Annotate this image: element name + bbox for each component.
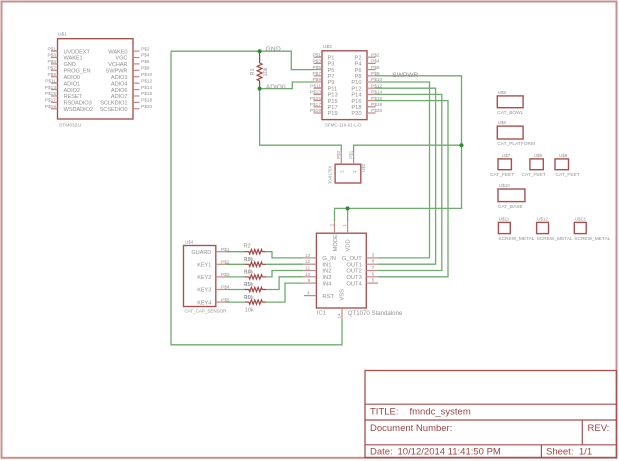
wire U$2 P$1 to SWPWR (354, 145, 462, 152)
svg-text:P$1: P$1 (312, 52, 321, 58)
svg-text:CAT_FEET: CAT_FEET (490, 172, 514, 178)
wire GND net (171, 51, 314, 69)
svg-text:30-8179X: 30-8179X (327, 166, 332, 184)
svg-text:ADIO2: ADIO2 (64, 88, 80, 94)
svg-text:U$13: U$13 (575, 216, 586, 221)
svg-text:P$20: P$20 (141, 104, 153, 110)
svg-text:SCREW_METAL: SCREW_METAL (537, 236, 573, 242)
resistor R3 10k (244, 257, 267, 276)
svg-text:TITLE:: TITLE: (370, 406, 399, 417)
svg-text:GND: GND (266, 46, 282, 53)
svg-text:P5: P5 (328, 68, 335, 74)
svg-text:P$9: P$9 (47, 72, 56, 78)
svg-text:P14: P14 (351, 93, 361, 99)
svg-text:12: 12 (305, 259, 311, 264)
svg-text:U$3: U$3 (323, 44, 332, 50)
svg-text:U$1: U$1 (58, 32, 67, 38)
connector U$2 30-8179X (327, 150, 366, 184)
svg-text:Sheet:: Sheet: (546, 447, 573, 458)
part U$6 CAT_PLATFORM (497, 120, 535, 147)
svg-text:CAT_CAP_SENSOR: CAT_CAP_SENSOR (185, 309, 228, 314)
svg-text:U$2: U$2 (361, 163, 366, 172)
wire sensor row 4 (227, 289, 246, 291)
svg-text:3: 3 (372, 252, 375, 257)
part U$13 SCREW_METAL (574, 216, 610, 241)
svg-text:P$15: P$15 (45, 91, 57, 97)
svg-text:VSS: VSS (340, 289, 346, 301)
svg-text:P13: P13 (328, 93, 338, 99)
svg-text:R3: R3 (244, 257, 251, 263)
svg-text:5: 5 (372, 278, 375, 283)
svg-text:P$5: P$5 (312, 65, 321, 71)
svg-text:U$12: U$12 (537, 216, 548, 221)
svg-text:P8: P8 (355, 74, 362, 80)
wire SWPWR net (335, 76, 462, 222)
wire P$14 to OUT2 (376, 94, 442, 270)
svg-text:ADIO0: ADIO0 (64, 75, 80, 81)
svg-text:G_IN: G_IN (322, 256, 336, 262)
svg-text:P$18: P$18 (141, 98, 153, 104)
svg-text:U$8: U$8 (534, 153, 543, 158)
svg-text:R4: R4 (244, 270, 251, 276)
wire sensor row 2 (227, 263, 246, 265)
svg-text:10/12/2014 11:41:50 PM: 10/12/2014 11:41:50 PM (398, 447, 501, 458)
svg-text:CAT_BASE: CAT_BASE (498, 204, 523, 210)
svg-text:RESET: RESET (64, 94, 83, 100)
svg-text:P$4: P$4 (371, 59, 380, 65)
resistor R4 10k (244, 270, 267, 289)
svg-text:10k: 10k (263, 67, 269, 76)
resistor R1 (250, 51, 269, 88)
svg-text:GUARD: GUARD (191, 250, 211, 256)
svg-text:P10: P10 (351, 80, 361, 86)
svg-text:IN4: IN4 (322, 281, 332, 287)
svg-text:P11: P11 (328, 86, 338, 92)
IC IC1 QT1070 (304, 221, 403, 319)
svg-text:2: 2 (329, 224, 334, 227)
svg-text:R5: R5 (244, 282, 251, 288)
svg-text:9: 9 (308, 278, 311, 283)
svg-text:P$16: P$16 (141, 91, 153, 97)
svg-text:CAT_BOWL: CAT_BOWL (497, 110, 523, 116)
svg-text:U$4: U$4 (185, 240, 194, 245)
svg-text:REV:: REV: (588, 423, 610, 434)
wire ADIO0 drop to U$2 (260, 89, 342, 153)
svg-text:P12: P12 (351, 86, 361, 92)
wire P$16 to OUT3 (376, 101, 449, 277)
svg-text:GND: GND (64, 62, 76, 68)
svg-text:P2: P2 (355, 55, 362, 61)
svg-text:P$2: P$2 (371, 52, 380, 58)
svg-text:P$11: P$11 (45, 78, 56, 84)
svg-text:P3: P3 (328, 62, 335, 68)
svg-text:IC1: IC1 (317, 310, 326, 316)
svg-text:OUT1: OUT1 (346, 262, 361, 268)
svg-text:P$20: P$20 (371, 108, 383, 114)
svg-text:8: 8 (372, 259, 375, 264)
svg-text:MODE: MODE (333, 234, 339, 252)
svg-text:P15: P15 (328, 99, 338, 105)
svg-text:ADIO6: ADIO6 (111, 88, 127, 94)
svg-text:10k: 10k (245, 307, 254, 313)
svg-text:CAT_PLATFORM: CAT_PLATFORM (497, 141, 535, 147)
part U$7 CAT_FEET (490, 153, 514, 178)
part U$5 CAT_BOWL (497, 90, 523, 116)
svg-text:ADIO0: ADIO0 (266, 84, 286, 91)
svg-text:OUT3: OUT3 (346, 275, 361, 281)
svg-text:Document Number:: Document Number: (370, 423, 452, 434)
svg-text:U$11: U$11 (499, 216, 510, 221)
svg-text:P1: P1 (328, 55, 335, 61)
svg-text:2: 2 (340, 170, 345, 173)
svg-text:P9: P9 (328, 80, 335, 86)
svg-text:U$6: U$6 (498, 120, 507, 125)
svg-text:P$8: P$8 (141, 66, 150, 72)
wire sensor row 1 (227, 251, 246, 253)
resistor R6 10k (244, 295, 267, 314)
svg-text:OUT4: OUT4 (346, 281, 362, 287)
svg-text:P$9: P$9 (312, 77, 321, 83)
svg-text:WSDADIO2: WSDADIO2 (64, 107, 93, 113)
svg-text:P$6: P$6 (371, 65, 380, 71)
wire sensor row 3 (227, 276, 246, 278)
svg-text:Date:: Date: (370, 447, 393, 458)
svg-text:P$17: P$17 (310, 102, 322, 108)
svg-text:P$7: P$7 (47, 66, 56, 72)
svg-text:RST: RST (322, 294, 334, 300)
svg-text:IN1: IN1 (322, 262, 331, 268)
svg-text:14: 14 (337, 313, 342, 319)
svg-text:R1: R1 (250, 68, 256, 75)
svg-text:UVDDEXT: UVDDEXT (64, 49, 91, 55)
svg-text:P7: P7 (328, 74, 335, 80)
svg-text:KEY2: KEY2 (197, 275, 211, 281)
part U$9 CAT_FEET (555, 153, 580, 178)
svg-text:P$5: P$5 (47, 59, 56, 65)
part U$11 SCREW_METAL (498, 216, 534, 241)
svg-text:P20: P20 (351, 111, 361, 117)
svg-text:SWPWR: SWPWR (392, 72, 418, 79)
svg-text:P$14: P$14 (141, 85, 153, 91)
svg-text:WAKE0: WAKE0 (108, 49, 127, 55)
svg-text:fmndc_system: fmndc_system (410, 406, 471, 417)
svg-text:ADIO3: ADIO3 (111, 75, 127, 81)
sensor U$4 CAT_CAP_SENSOR (184, 240, 230, 314)
title block (365, 371, 617, 458)
svg-text:SCLKDIO1: SCLKDIO1 (100, 101, 127, 107)
svg-text:ADIO4: ADIO4 (111, 81, 127, 87)
svg-text:KEY1: KEY1 (197, 263, 211, 269)
svg-text:U$5: U$5 (498, 90, 507, 95)
wire ADIO0 net (260, 82, 314, 89)
svg-text:P$6: P$6 (141, 59, 150, 65)
svg-text:OUT2: OUT2 (346, 269, 361, 275)
part U$8 CAT_FEET (522, 153, 546, 178)
svg-text:IN2: IN2 (322, 269, 331, 275)
junction GND/R1 (258, 49, 262, 53)
svg-text:P$1: P$1 (349, 150, 354, 159)
IC U$3 SFMC-110-01-L-D (310, 44, 383, 127)
svg-text:QT1070 Standalone: QT1070 Standalone (348, 310, 403, 317)
svg-text:P6: P6 (355, 68, 362, 74)
svg-text:P$18: P$18 (371, 102, 383, 108)
resistor R5 10k (244, 282, 267, 301)
svg-text:U$9: U$9 (559, 153, 568, 158)
svg-text:P18: P18 (351, 105, 361, 111)
svg-text:P$4: P$4 (141, 53, 150, 59)
wire P$12 to OUT1 (376, 88, 436, 264)
svg-text:G_OUT: G_OUT (342, 256, 362, 262)
svg-text:P$7: P$7 (312, 71, 321, 77)
svg-text:R2: R2 (244, 244, 251, 250)
svg-text:10: 10 (305, 272, 311, 277)
svg-text:SCREW_METAL: SCREW_METAL (574, 236, 610, 242)
svg-text:ADIO7: ADIO7 (111, 94, 127, 100)
svg-text:ADIO1: ADIO1 (64, 81, 80, 87)
wire VDD riser (347, 208, 349, 221)
svg-text:P$13: P$13 (310, 90, 322, 96)
part U$10 CAT_BASE (498, 183, 525, 210)
svg-text:P17: P17 (328, 105, 338, 111)
svg-text:U$7: U$7 (502, 153, 511, 158)
svg-text:U$10: U$10 (499, 183, 510, 188)
wire P$10 to G_OUT (376, 82, 430, 258)
svg-text:STM032U: STM032U (59, 123, 81, 129)
svg-text:P$19: P$19 (310, 108, 322, 114)
svg-text:CAT_FEET: CAT_FEET (556, 172, 580, 178)
svg-text:P$12: P$12 (141, 78, 153, 84)
junction SWPWR/VDD (346, 206, 350, 210)
svg-text:SCREW_METAL: SCREW_METAL (498, 236, 534, 242)
svg-text:P$2: P$2 (141, 46, 150, 52)
svg-text:KEY4: KEY4 (197, 300, 211, 306)
svg-text:CAT_FEET: CAT_FEET (522, 172, 546, 178)
wire GND left drop (171, 51, 342, 345)
junction SWPWR/P$1 (460, 143, 464, 147)
svg-text:VDD: VDD (345, 239, 351, 251)
svg-text:4: 4 (307, 291, 310, 296)
svg-text:R6: R6 (244, 295, 251, 301)
svg-text:P4: P4 (355, 62, 362, 68)
svg-text:P$2: P$2 (336, 150, 341, 159)
svg-text:11: 11 (305, 266, 310, 271)
svg-text:P$17: P$17 (45, 98, 57, 104)
svg-text:SFMC-110-01-L-D: SFMC-110-01-L-D (325, 123, 362, 128)
svg-text:PROG_EN: PROG_EN (64, 69, 91, 75)
svg-text:RSDADIO3: RSDADIO3 (64, 101, 92, 107)
svg-text:1/1: 1/1 (579, 447, 592, 458)
resistor R2 10k (244, 244, 267, 263)
IC U$1 STM032U (45, 32, 153, 129)
svg-text:SWPWR: SWPWR (106, 69, 128, 75)
svg-text:P19: P19 (328, 111, 338, 117)
svg-text:P$13: P$13 (45, 85, 57, 91)
svg-text:P16: P16 (351, 99, 361, 105)
svg-text:IN3: IN3 (322, 275, 331, 281)
svg-text:13: 13 (305, 253, 311, 258)
svg-text:7: 7 (372, 265, 375, 270)
svg-text:P$10: P$10 (141, 72, 153, 78)
svg-text:VGC: VGC (115, 56, 127, 62)
svg-text:P$19: P$19 (45, 104, 57, 110)
wire sensor row 5 (227, 301, 246, 303)
svg-text:KEY3: KEY3 (197, 288, 211, 294)
part U$12 SCREW_METAL (537, 216, 573, 241)
svg-text:P$11: P$11 (310, 83, 321, 89)
svg-text:P$1: P$1 (47, 46, 56, 52)
svg-text:P$15: P$15 (310, 96, 322, 102)
svg-text:SCSEDIO0: SCSEDIO0 (100, 107, 128, 113)
svg-text:WAKE1: WAKE1 (64, 56, 83, 62)
junction ADIO0/R1 (258, 87, 262, 91)
svg-text:P$3: P$3 (312, 59, 321, 65)
svg-text:P$3: P$3 (47, 53, 56, 59)
svg-text:1: 1 (342, 224, 347, 227)
svg-text:6: 6 (372, 271, 375, 276)
svg-text:1: 1 (352, 170, 357, 173)
svg-text:VCHAR: VCHAR (108, 62, 127, 68)
